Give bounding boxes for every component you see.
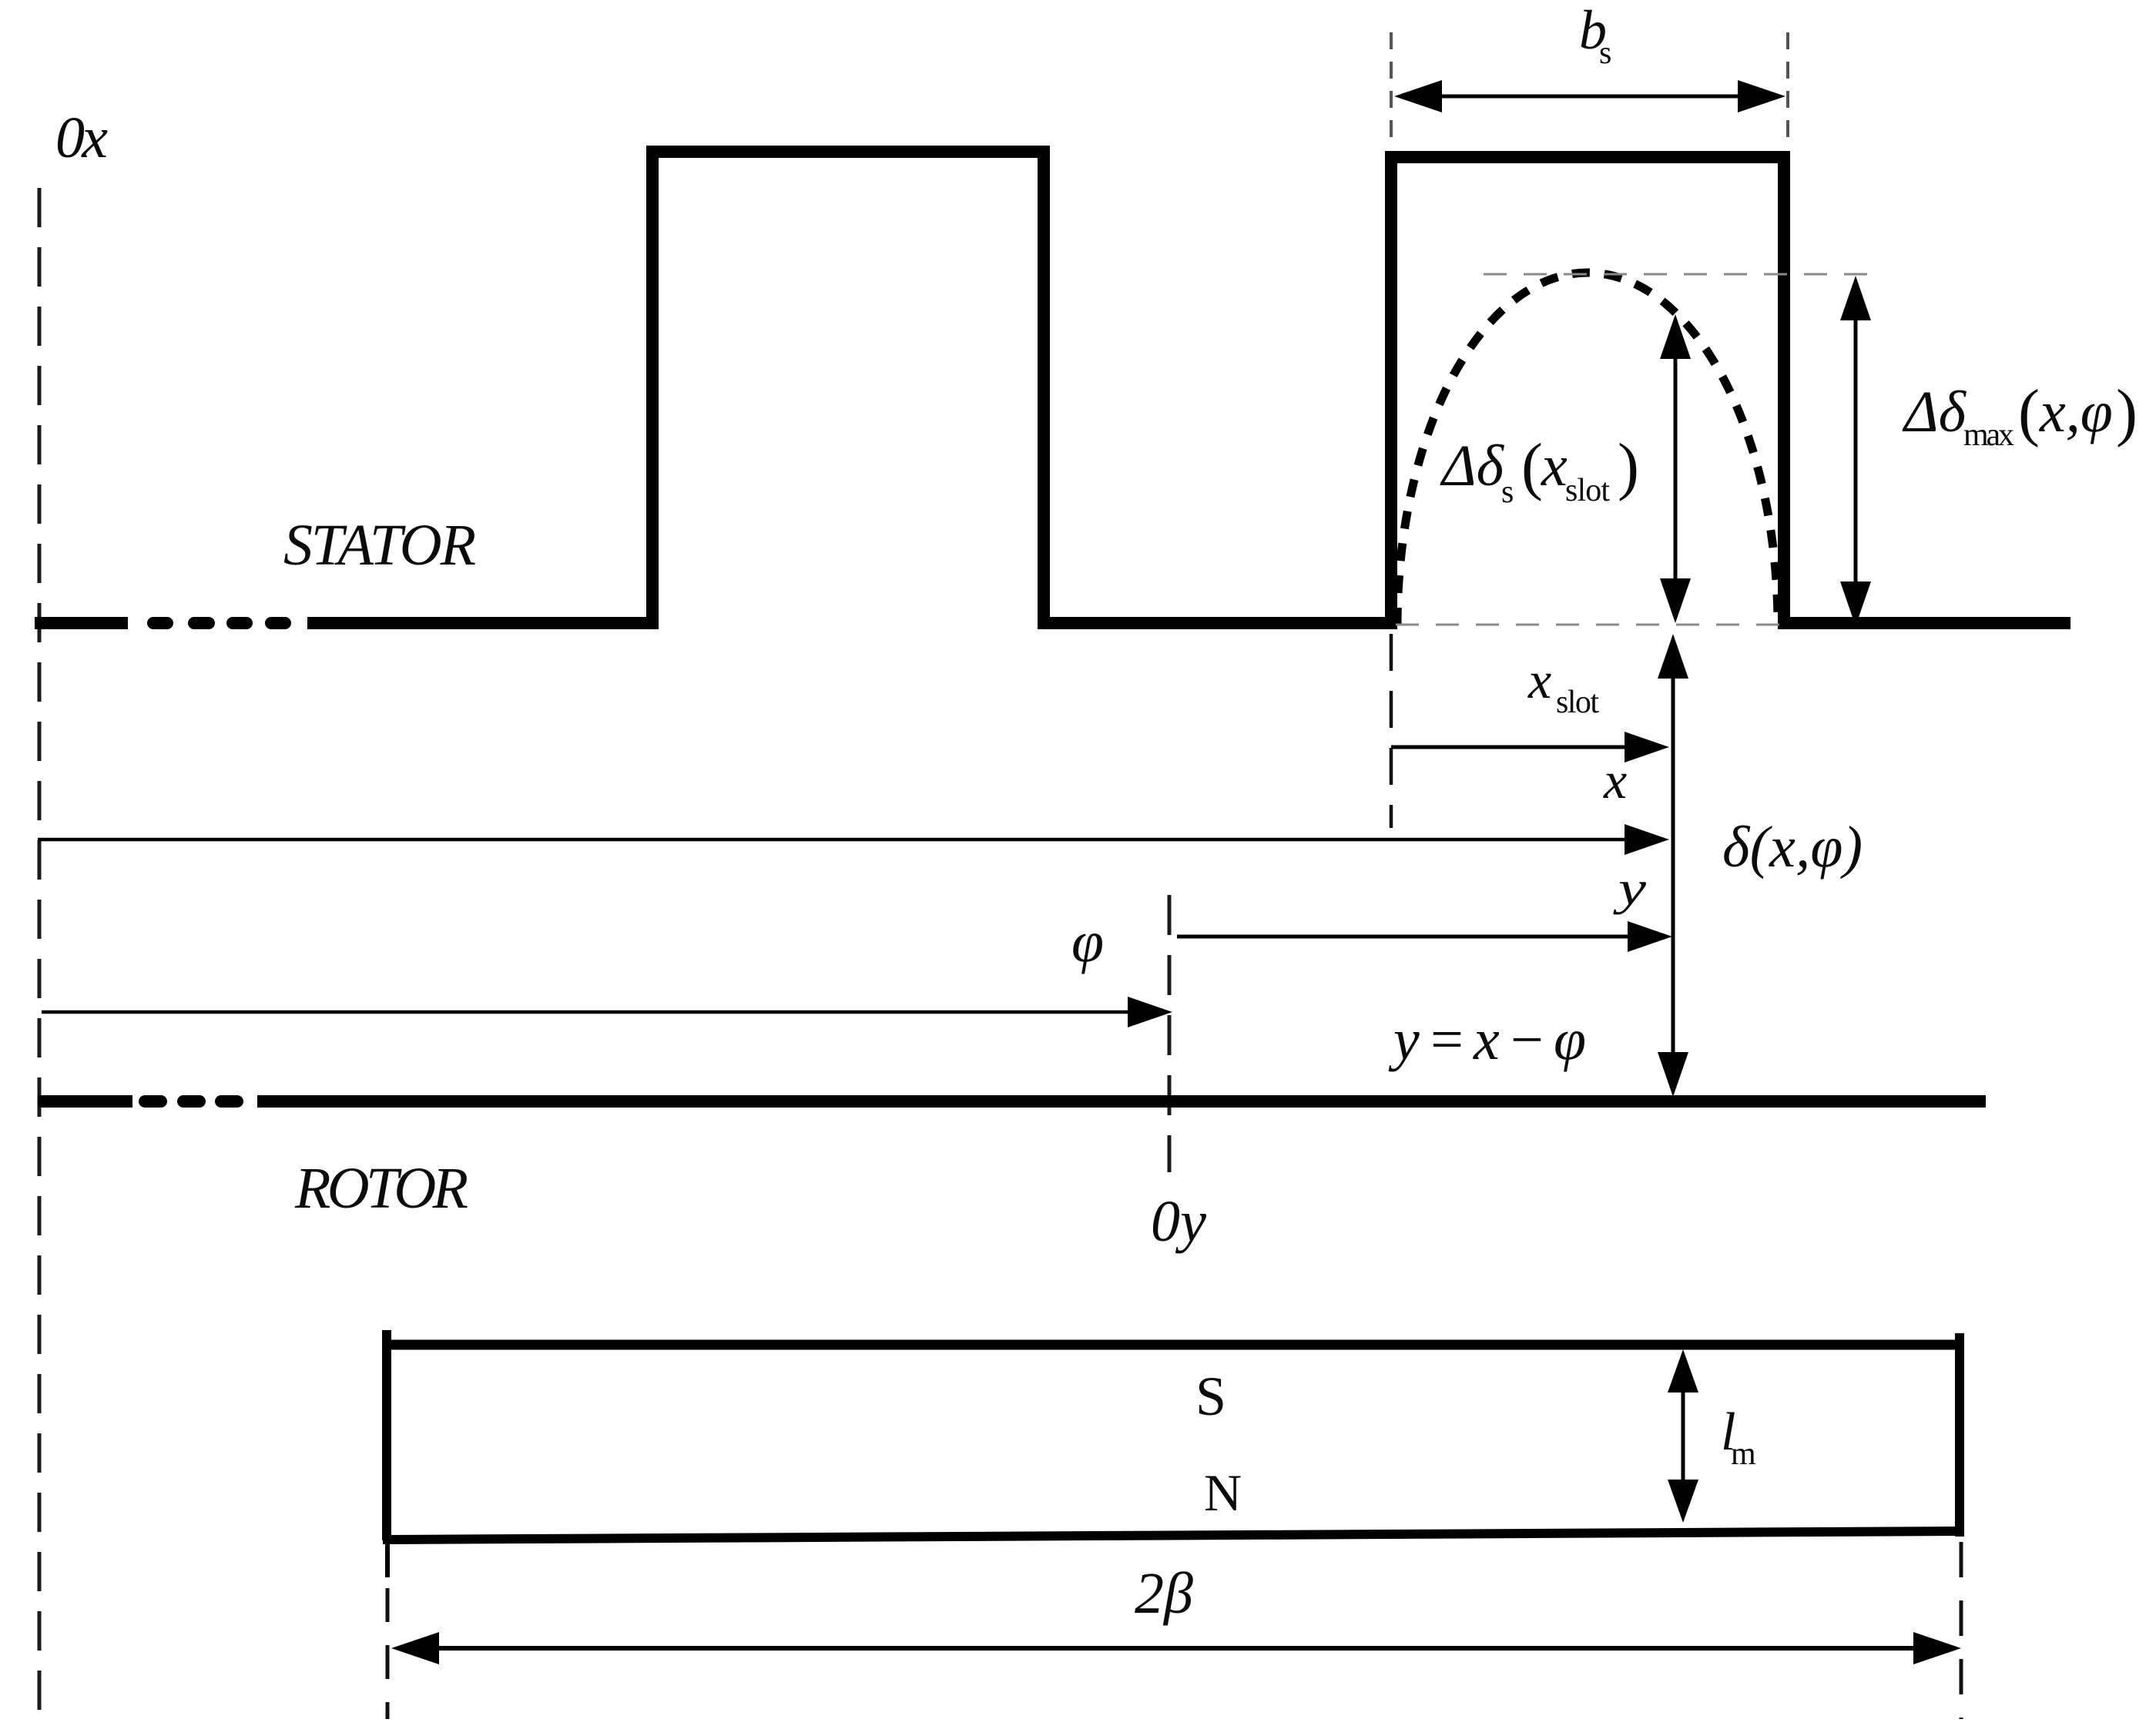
svg-text:Δδ: Δδ bbox=[1902, 380, 1967, 444]
wire stator surface solid to slot 1 bbox=[307, 617, 655, 629]
svg-text:Δδ: Δδ bbox=[1440, 434, 1505, 498]
svg-text:x: x bbox=[1541, 434, 1568, 498]
wire stator surface between slots bbox=[1041, 617, 1393, 629]
dimension 2beta double arrow bbox=[391, 1632, 1961, 1664]
arrow phi horizontal bbox=[42, 997, 1172, 1027]
svg-text:): ) bbox=[2116, 377, 2138, 448]
svg-text:0y: 0y bbox=[1151, 1189, 1206, 1254]
svg-text:(: ( bbox=[2018, 377, 2040, 448]
dashed extension of slot 2 left edge below stator bbox=[1390, 634, 1393, 828]
arrow l_m vertical double arrow bbox=[1668, 1349, 1698, 1523]
svg-text:s: s bbox=[1501, 474, 1514, 510]
arrow delta_max vertical double arrow bbox=[1840, 276, 1871, 626]
stator slot 2 outline bbox=[1391, 157, 1784, 629]
magnet right edge with corner tick bbox=[1955, 1333, 1964, 1537]
svg-text:S: S bbox=[1195, 1366, 1226, 1427]
wire rotor surface long solid segment bbox=[257, 1095, 1986, 1108]
arrow x long horizontal bbox=[38, 824, 1669, 855]
magnet left edge with corner tick bbox=[382, 1330, 391, 1540]
svg-text:x,φ: x,φ bbox=[2039, 380, 2113, 444]
svg-text:s: s bbox=[1599, 35, 1611, 71]
svg-text:): ) bbox=[1618, 431, 1639, 502]
wire stator surface right segment bbox=[1782, 617, 2070, 629]
magnet top edge bbox=[383, 1340, 1963, 1350]
wire rotor surface left solid segment bbox=[38, 1095, 132, 1108]
svg-text:max: max bbox=[1963, 417, 2014, 453]
label delta_max(x,phi) bbox=[1902, 377, 2138, 453]
dimension b_s double arrow bbox=[1394, 80, 1785, 112]
svg-text:0x: 0x bbox=[55, 106, 108, 170]
wire stator surface left solid segment bbox=[35, 617, 128, 629]
svg-text:slot: slot bbox=[1556, 685, 1599, 720]
arrow y horizontal bbox=[1177, 921, 1672, 952]
svg-text:m: m bbox=[1731, 1436, 1756, 1472]
arrow delta(x,phi) vertical double arrow bbox=[1658, 634, 1688, 1097]
dashed extension below magnet right bbox=[1960, 1542, 1963, 1719]
dimension b_s left extension dashed line bbox=[1390, 32, 1393, 148]
dimension b_s right extension dashed line bbox=[1786, 32, 1789, 148]
svg-text:ROTOR: ROTOR bbox=[294, 1156, 468, 1221]
svg-text:δ(x,φ): δ(x,φ) bbox=[1722, 815, 1863, 880]
svg-text:x: x bbox=[1603, 751, 1627, 809]
dashed extension below magnet left bbox=[386, 1588, 390, 1719]
label delta_s(x_slot) bbox=[1440, 431, 1639, 510]
svg-text:STATOR: STATOR bbox=[283, 513, 476, 578]
svg-text:N: N bbox=[1204, 1463, 1242, 1522]
wire stator surface dotted segment bbox=[153, 617, 285, 629]
svg-text:φ: φ bbox=[1071, 910, 1104, 974]
thin dashed line at stator surface level under slot bbox=[1396, 624, 1779, 626]
svg-text:(: ( bbox=[1521, 431, 1543, 502]
svg-text:2β: 2β bbox=[1135, 1561, 1193, 1626]
stator slot 1 outline bbox=[652, 152, 1044, 629]
svg-text:slot: slot bbox=[1565, 473, 1610, 508]
magnet bottom edge (slanted) bbox=[383, 1531, 1963, 1540]
node 0y dashed line bbox=[1168, 895, 1172, 1172]
arrow delta_s vertical double arrow bbox=[1660, 314, 1691, 623]
node 0x axis dashed line bbox=[38, 188, 42, 1726]
svg-text:x: x bbox=[1527, 651, 1551, 709]
arrow x_slot bbox=[1391, 732, 1669, 762]
thin dashed line at dome apex level bbox=[1484, 273, 1877, 276]
wire rotor surface dotted segment bbox=[145, 1095, 237, 1108]
dashed dome curve in slot 2 bbox=[1397, 273, 1778, 625]
svg-text:y = x − φ: y = x − φ bbox=[1388, 1007, 1586, 1072]
